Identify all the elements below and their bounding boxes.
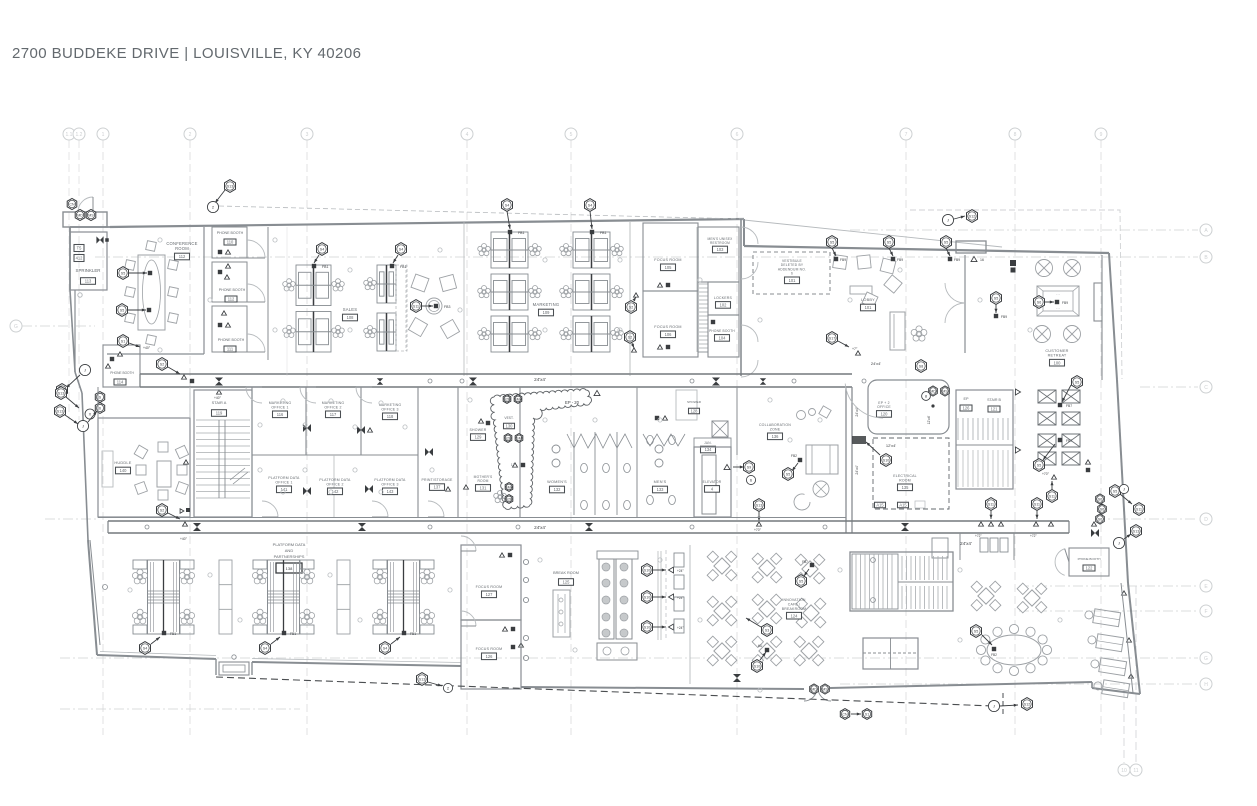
sprinkler room 113 — [70, 232, 107, 290]
svg-text:5: 5 — [570, 132, 573, 138]
svg-text:+72°: +72° — [975, 534, 982, 538]
platform data office 3 — [374, 478, 406, 495]
janitor 134 — [694, 438, 731, 453]
tag EP stair — [960, 397, 972, 411]
svg-text:12'x4': 12'x4' — [927, 415, 931, 424]
tag S13 left mid 2 — [55, 405, 79, 424]
svg-text:FB7: FB7 — [802, 560, 808, 564]
grid column lines — [69, 140, 1136, 763]
svg-text:PLATFORM DATA: PLATFORM DATA — [319, 478, 351, 482]
phone booth 104 — [708, 315, 739, 357]
collab right wall — [846, 387, 852, 533]
svg-text:FB7: FB7 — [1066, 439, 1072, 443]
cloud tags — [503, 395, 579, 504]
svg-text:SHOWER: SHOWER — [470, 428, 487, 432]
lobby label — [861, 297, 876, 311]
svg-text:···: ··· — [1056, 306, 1060, 311]
left wall column lower — [90, 540, 108, 645]
svg-text:+24°: +24° — [677, 569, 684, 573]
phone booth 112 — [212, 262, 247, 302]
svg-text:S3: S3 — [765, 628, 769, 632]
tags racks — [1034, 376, 1091, 503]
game table — [863, 638, 918, 669]
svg-text:S10: S10 — [644, 568, 650, 572]
tag J left — [66, 364, 91, 388]
svg-text:134: 134 — [705, 447, 713, 452]
mothers room 131 — [474, 463, 526, 503]
sheet title — [12, 45, 361, 62]
svg-text:130: 130 — [506, 424, 514, 429]
exterior wall - left tilted — [88, 540, 97, 655]
svg-text:VEST.: VEST. — [504, 416, 513, 420]
svg-text:EP: EP — [963, 397, 969, 401]
phone booth 111 — [212, 306, 247, 352]
hardware circles wall — [521, 545, 529, 689]
svg-text:4: 4 — [466, 132, 469, 138]
svg-text:CAFE /: CAFE / — [788, 602, 800, 606]
svg-text:J: J — [1118, 541, 1120, 546]
lobby plant — [911, 326, 927, 341]
svg-text:12'x4': 12'x4' — [886, 443, 896, 448]
svg-text:S5: S5 — [994, 296, 998, 300]
svg-text:CN: CN — [842, 712, 848, 716]
svg-text:EP - 20: EP - 20 — [565, 400, 580, 405]
svg-text:1: 1 — [102, 132, 105, 138]
shower 129 — [470, 419, 491, 441]
retreat column — [1094, 283, 1102, 321]
tag S13 top — [207, 180, 235, 213]
shower room mid — [655, 390, 702, 420]
svg-text:OFFICE 3: OFFICE 3 — [381, 407, 398, 411]
svg-text:PRINT/STORAGE: PRINT/STORAGE — [421, 478, 453, 482]
tag S5 conference a — [118, 267, 153, 280]
customer retreat rug — [1037, 286, 1079, 316]
print storage 137 — [421, 387, 468, 517]
tag CN entry — [67, 198, 77, 209]
svg-text:LOBBY: LOBBY — [861, 297, 875, 302]
svg-text:T5: T5 — [77, 246, 83, 251]
svg-text:+24°: +24° — [677, 626, 684, 630]
svg-text:C: C — [1204, 385, 1208, 391]
svg-text:FB7: FB7 — [1066, 404, 1072, 408]
svg-text:117: 117 — [330, 412, 337, 417]
svg-text:S2B: S2B — [505, 436, 512, 440]
svg-text:16: 16 — [980, 258, 984, 262]
svg-text:101: 101 — [789, 278, 797, 283]
svg-text:11: 11 — [1133, 768, 1138, 774]
svg-text:S10: S10 — [754, 664, 760, 668]
stair B treads upper — [958, 391, 1008, 393]
exterior wall - top right span — [744, 246, 1109, 253]
svg-text:8: 8 — [1014, 132, 1017, 138]
svg-text:S2B: S2B — [506, 497, 513, 501]
svg-text:MARKETING: MARKETING — [533, 302, 560, 307]
wet core wall — [519, 387, 521, 517]
svg-text:S6: S6 — [1098, 497, 1102, 501]
svg-text:140: 140 — [120, 468, 128, 473]
svg-text:2: 2 — [189, 132, 192, 138]
svg-text:PLATFORM DATA: PLATFORM DATA — [273, 542, 306, 547]
svg-text:S1: S1 — [865, 712, 869, 716]
lockers hatch strip — [698, 282, 708, 352]
svg-text:+7°: +7° — [852, 347, 858, 351]
svg-text:FB1: FB1 — [518, 231, 524, 235]
stair B — [956, 390, 1013, 489]
platform data office 1 — [268, 476, 311, 495]
svg-text:COLLABORATION: COLLABORATION — [759, 423, 791, 427]
tag FB7 cafe — [796, 560, 815, 587]
svg-text:MD: MD — [77, 213, 83, 217]
vestibule double doors upper — [741, 227, 758, 279]
svg-text:OFFICE: OFFICE — [877, 405, 891, 409]
tags right edge cluster — [1096, 484, 1145, 548]
svg-text:S6: S6 — [1098, 517, 1102, 521]
svg-text:S4: S4 — [505, 203, 509, 207]
right wall inner — [1121, 583, 1133, 693]
svg-text:+72°: +72° — [1030, 534, 1037, 538]
svg-text:127: 127 — [486, 592, 494, 597]
svg-text:112: 112 — [228, 297, 235, 302]
svg-text:X: X — [89, 412, 92, 417]
tag S4 pod4 — [585, 199, 607, 235]
tag S5 retreat — [991, 292, 1008, 319]
grid row bubbles — [10, 224, 1212, 690]
tags CN S1 bottom — [840, 709, 871, 720]
focus room 126 — [461, 611, 524, 689]
svg-text:9: 9 — [1100, 132, 1103, 138]
svg-text:SM4: SM4 — [505, 485, 512, 489]
tags left cluster mid — [77, 392, 104, 432]
open office dividing wall — [463, 222, 465, 376]
svg-text:110: 110 — [227, 240, 234, 245]
phone booth 110 — [212, 227, 247, 258]
pods lower row — [133, 560, 147, 569]
svg-text:104: 104 — [719, 336, 727, 341]
tag S6 rug — [1034, 296, 1069, 309]
svg-text:129: 129 — [475, 435, 483, 440]
svg-text:FB3: FB3 — [444, 305, 450, 309]
svg-text:S5: S5 — [120, 308, 124, 312]
svg-text:ZONE: ZONE — [770, 427, 781, 431]
cafe wall — [689, 545, 691, 684]
restroom 103 — [698, 227, 739, 282]
svg-text:S13: S13 — [58, 391, 64, 395]
svg-text:J: J — [82, 424, 84, 429]
svg-text:FB9: FB9 — [897, 258, 903, 262]
exterior wall - top jog — [743, 219, 745, 246]
svg-text:122: 122 — [1086, 566, 1094, 571]
svg-text:102: 102 — [720, 303, 728, 308]
svg-text:F: F — [1204, 609, 1207, 615]
svg-text:101: 101 — [865, 305, 873, 310]
mens restroom 133 — [637, 387, 685, 517]
svg-text:10: 10 — [1121, 768, 1127, 774]
fixtures column breakroom — [666, 550, 684, 640]
svg-text:ROOM: ROOM — [175, 246, 189, 251]
svg-text:105: 105 — [665, 265, 673, 270]
svg-text:137: 137 — [434, 485, 442, 490]
svg-text:A15: A15 — [876, 503, 884, 508]
svg-text:FB1: FB1 — [322, 265, 328, 269]
svg-text:141: 141 — [281, 487, 289, 492]
svg-text:6: 6 — [99, 406, 101, 410]
dark fixture top — [1010, 260, 1016, 273]
svg-text:FB1: FB1 — [170, 632, 176, 636]
right desks row — [1084, 591, 1134, 698]
tag S2 lower corridor — [157, 504, 191, 519]
svg-text:PLATFORM DATA: PLATFORM DATA — [268, 476, 300, 480]
phone room 114 — [103, 345, 140, 387]
corridor upper 24x4 — [140, 374, 866, 400]
corridor 24x4 vertical labels — [855, 407, 859, 474]
focus room 106 — [643, 291, 698, 357]
svg-text:STAIR B: STAIR B — [987, 398, 1001, 402]
svg-text:JAN.: JAN. — [704, 441, 712, 445]
canopy line top-right — [744, 220, 1002, 247]
tags S10 column — [642, 564, 685, 577]
svg-text:S5: S5 — [887, 240, 891, 244]
svg-text:113: 113 — [85, 279, 92, 284]
tag triangle cloud — [594, 390, 600, 395]
tag S4 pod1 — [312, 243, 329, 269]
sales pod 1 — [296, 265, 331, 306]
svg-text:PARTNERSHIPS: PARTNERSHIPS — [274, 554, 305, 559]
electrical small boxes — [875, 501, 926, 508]
property dashed line — [216, 677, 1003, 716]
svg-text:143: 143 — [387, 489, 395, 494]
svg-text:ELECTRICAL: ELECTRICAL — [893, 474, 917, 478]
svg-text:136: 136 — [772, 434, 780, 439]
svg-text:106: 106 — [665, 332, 673, 337]
svg-text:S5: S5 — [830, 240, 834, 244]
tag S11 lounge — [411, 300, 451, 313]
svg-text:119: 119 — [216, 411, 223, 416]
sales room label — [343, 307, 358, 321]
tag S10 electrical — [866, 442, 892, 466]
exterior wall - bottom right — [1092, 688, 1140, 694]
tag cluster ep2 — [916, 360, 950, 401]
upper mid-band top walls — [98, 387, 190, 418]
svg-text:S4: S4 — [143, 646, 147, 650]
svg-text:MD: MD — [811, 687, 817, 691]
grid column bubbles — [63, 128, 1142, 776]
tag S3 cafe — [746, 618, 773, 636]
svg-text:S5: S5 — [1113, 489, 1117, 493]
svg-text:FB1: FB1 — [600, 231, 606, 235]
tag S13 left — [57, 384, 68, 397]
svg-text:S4: S4 — [383, 646, 387, 650]
wall right of booths — [267, 227, 269, 360]
svg-text:RESTROOM: RESTROOM — [710, 241, 730, 245]
svg-text:+70°: +70° — [754, 528, 762, 532]
svg-text:S11: S11 — [413, 304, 419, 308]
offices mid wall — [252, 454, 418, 456]
svg-text:D: D — [1204, 517, 1208, 523]
womens restroom 132 — [547, 432, 632, 515]
svg-text:108: 108 — [347, 315, 355, 320]
sprinkler dots lower band — [128, 558, 1062, 692]
svg-text:···: ··· — [1056, 292, 1060, 297]
svg-text:WOMEN'S: WOMEN'S — [547, 480, 567, 484]
wall below sprinkler room — [75, 290, 82, 372]
svg-text:S5: S5 — [121, 271, 125, 275]
svg-text:SHOWER: SHOWER — [687, 400, 702, 404]
svg-text:MS: MS — [88, 213, 94, 217]
exterior wall - right tilted — [1109, 253, 1117, 380]
svg-text:OFFICE 3: OFFICE 3 — [381, 482, 398, 486]
svg-text:24'x4': 24'x4' — [855, 465, 859, 474]
svg-text:MARKETING: MARKETING — [269, 401, 292, 405]
svg-text:S5: S5 — [1075, 380, 1079, 384]
svg-text:133: 133 — [657, 487, 665, 492]
corridor right triangles — [975, 522, 1099, 538]
tag triangle 16 — [971, 256, 984, 262]
tag MD entry — [75, 209, 85, 220]
svg-text:24'x4': 24'x4' — [871, 361, 881, 366]
svg-text:G: G — [1204, 656, 1208, 662]
vestibule wall — [740, 219, 742, 376]
entry canopy box — [956, 241, 986, 253]
svg-text:124: 124 — [791, 613, 799, 618]
svg-text:24'x4': 24'x4' — [960, 541, 972, 546]
tag S13 property — [417, 673, 453, 693]
svg-text:PLATFORM DATA: PLATFORM DATA — [374, 478, 406, 482]
svg-text:ROOM: ROOM — [477, 479, 488, 483]
svg-text:FB1: FB1 — [400, 265, 406, 269]
tag S10 cafe — [752, 644, 770, 672]
svg-text:FOCUS ROOM: FOCUS ROOM — [476, 647, 503, 651]
bowtie cafe — [733, 674, 741, 682]
marketing pod 3 — [491, 232, 528, 268]
svg-text:131: 131 — [480, 486, 488, 491]
svg-text:S10: S10 — [644, 595, 650, 599]
svg-text:S6: S6 — [1100, 507, 1104, 511]
tag J property right — [988, 698, 1032, 712]
conference room 112 — [107, 227, 204, 354]
svg-text:100: 100 — [1054, 360, 1062, 365]
svg-text:CN: CN — [69, 202, 75, 206]
svg-text:S11: S11 — [988, 502, 994, 506]
fixtures below corridor right — [932, 533, 1014, 560]
entry vestibule top-left — [63, 197, 107, 227]
svg-text:BREAKROOM: BREAKROOM — [782, 607, 807, 611]
svg-text:MS: MS — [942, 389, 948, 393]
tag S4 pod3 — [502, 199, 525, 235]
svg-text:FOCUS ROOM: FOCUS ROOM — [476, 585, 503, 589]
tags S5 row top — [827, 236, 847, 262]
planter bump — [219, 655, 249, 675]
break room 125 — [553, 571, 579, 637]
svg-text:SM4: SM4 — [514, 397, 521, 401]
collaboration zone — [759, 406, 838, 510]
svg-text:RETREAT: RETREAT — [1048, 354, 1067, 358]
svg-text:OFFICE 1: OFFICE 1 — [271, 405, 288, 409]
svg-text:OFFICE 2: OFFICE 2 — [326, 482, 343, 486]
svg-text:H: H — [1204, 682, 1208, 688]
mid band bottom wall — [98, 517, 846, 519]
svg-text:S17: S17 — [829, 336, 835, 340]
svg-text:FB9: FB9 — [1001, 315, 1007, 319]
electrical room 135 — [873, 438, 949, 509]
sprinkler dots upper band — [158, 238, 1032, 352]
svg-text:FB9: FB9 — [1062, 301, 1068, 305]
svg-text:ROOM: ROOM — [899, 478, 911, 482]
svg-text:BREAK ROOM: BREAK ROOM — [553, 571, 579, 575]
svg-text:FB1: FB1 — [410, 632, 416, 636]
tag S13 left mid — [56, 387, 80, 408]
svg-text:J: J — [1123, 487, 1125, 492]
dark duct right — [852, 436, 866, 444]
svg-text:S13: S13 — [419, 677, 425, 681]
svg-text:J: J — [947, 218, 949, 223]
customer retreat chairs — [1034, 260, 1081, 343]
kitchen counters — [597, 551, 661, 660]
svg-text:S12: S12 — [1024, 702, 1030, 706]
svg-text:24'x4': 24'x4' — [534, 377, 546, 382]
door triangles stairB — [1015, 389, 1020, 453]
svg-text:132: 132 — [554, 487, 562, 492]
customer retreat wall — [945, 255, 965, 353]
svg-text:1.1: 1.1 — [66, 132, 73, 138]
tags S2 focus rooms — [626, 293, 639, 314]
svg-text:S4: S4 — [399, 247, 403, 251]
stair A — [194, 390, 252, 517]
tag FB2 collab — [783, 454, 803, 480]
exterior wall - top left span — [110, 219, 744, 227]
huddle room 140 — [98, 418, 190, 517]
tag S17 lobby — [827, 332, 861, 356]
ep2 office — [845, 380, 949, 434]
svg-text:S6: S6 — [1037, 300, 1041, 304]
tag S4 lower pod3 — [380, 631, 417, 655]
tag J S12 top right — [942, 210, 977, 226]
svg-text:121: 121 — [991, 407, 999, 412]
sales pod 2 — [364, 265, 407, 351]
platform data pods label — [273, 542, 306, 573]
svg-text:S5: S5 — [944, 240, 948, 244]
svg-text:S13: S13 — [57, 409, 63, 413]
svg-text:LOCKERS: LOCKERS — [714, 296, 733, 300]
marketing room label — [533, 302, 560, 316]
tag S4 lower pod1 — [140, 631, 177, 655]
shelf columns — [219, 560, 232, 634]
svg-text:A15: A15 — [899, 503, 907, 508]
corridor lower 24x4 — [108, 521, 1069, 546]
svg-text:S9: S9 — [747, 465, 751, 469]
tag S2 corridor — [157, 358, 195, 384]
svg-text:HU: HU — [758, 644, 763, 648]
svg-text:PHONE BOOTH: PHONE BOOTH — [218, 338, 245, 342]
svg-text:HUDDLE: HUDDLE — [114, 460, 131, 465]
svg-text:AND: AND — [285, 548, 294, 553]
svg-text:S2: S2 — [160, 362, 164, 366]
office door arcs — [246, 387, 444, 517]
svg-text:FB9: FB9 — [954, 258, 960, 262]
svg-text:126: 126 — [963, 406, 971, 411]
svg-text:12': 12' — [511, 463, 516, 467]
svg-text:INNOVATION: INNOVATION — [782, 598, 806, 602]
svg-text:114: 114 — [117, 380, 124, 385]
canopy dashed leader — [219, 206, 744, 219]
svg-text:+40°: +40° — [143, 346, 151, 350]
tag MS entry — [86, 209, 96, 220]
meeting oval — [976, 624, 1051, 675]
svg-text:J: J — [84, 368, 86, 373]
tag S13 collab — [754, 499, 765, 532]
svg-text:138: 138 — [286, 566, 293, 571]
svg-text:6: 6 — [791, 272, 793, 276]
svg-text:S11: S11 — [1136, 507, 1142, 511]
